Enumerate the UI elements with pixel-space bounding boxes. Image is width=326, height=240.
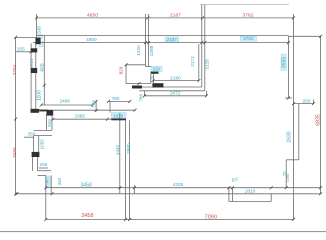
- svg-text:340: 340: [57, 177, 62, 185]
- svg-text:338: 338: [37, 26, 42, 34]
- svg-text:3458: 3458: [81, 183, 92, 189]
- svg-text:785: 785: [139, 94, 144, 102]
- svg-text:2187: 2187: [170, 12, 181, 18]
- svg-text:25: 25: [151, 76, 155, 80]
- svg-text:1015: 1015: [29, 58, 34, 69]
- svg-text:1050: 1050: [40, 139, 45, 150]
- svg-text:6835: 6835: [315, 114, 321, 126]
- svg-text:250: 250: [303, 98, 311, 103]
- svg-text:3762: 3762: [243, 12, 254, 18]
- svg-text:1220: 1220: [136, 45, 141, 56]
- svg-text:520: 520: [153, 66, 161, 71]
- svg-text:780: 780: [112, 96, 120, 101]
- svg-text:2630: 2630: [286, 131, 292, 142]
- svg-text:510: 510: [47, 119, 52, 127]
- svg-text:255: 255: [17, 46, 25, 51]
- svg-text:7090: 7090: [205, 214, 217, 220]
- svg-text:350: 350: [27, 131, 35, 136]
- svg-text:2187: 2187: [166, 37, 177, 42]
- svg-text:3762: 3762: [243, 36, 254, 41]
- svg-text:3555: 3555: [282, 57, 288, 69]
- svg-text:1985: 1985: [75, 114, 86, 119]
- svg-text:4325: 4325: [173, 182, 184, 187]
- svg-text:795: 795: [91, 100, 96, 108]
- svg-text:400: 400: [40, 63, 46, 72]
- svg-text:256: 256: [39, 162, 47, 167]
- svg-text:2406: 2406: [60, 98, 71, 103]
- svg-text:3458: 3458: [81, 213, 93, 219]
- svg-text:4850: 4850: [86, 37, 97, 42]
- svg-text:4850: 4850: [87, 12, 98, 18]
- svg-text:1398: 1398: [149, 45, 154, 56]
- svg-text:1490: 1490: [286, 174, 290, 182]
- svg-text:829: 829: [118, 66, 123, 74]
- svg-text:540: 540: [46, 178, 50, 184]
- svg-text:2172: 2172: [190, 56, 195, 67]
- svg-text:1100: 1100: [36, 90, 42, 101]
- svg-text:3128: 3128: [205, 59, 210, 70]
- svg-text:2180: 2180: [170, 75, 181, 80]
- svg-text:3880: 3880: [126, 143, 131, 154]
- svg-text:3754: 3754: [12, 64, 17, 75]
- svg-text:3455: 3455: [12, 147, 17, 158]
- svg-text:1810: 1810: [245, 188, 256, 193]
- svg-text:1440: 1440: [115, 144, 120, 155]
- svg-text:2472: 2472: [170, 91, 181, 96]
- svg-text:70: 70: [235, 178, 239, 182]
- svg-text:1030: 1030: [113, 113, 124, 118]
